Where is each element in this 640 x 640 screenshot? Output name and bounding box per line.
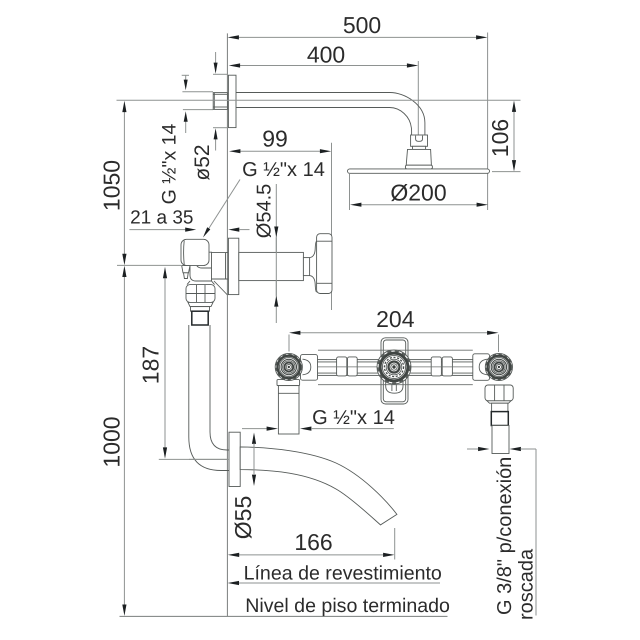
wall finish vertical line <box>226 33 228 616</box>
manifold coupling right <box>431 357 452 376</box>
shower head spacer <box>413 146 426 149</box>
check valve body <box>190 252 212 281</box>
106 bottom extension <box>492 171 521 173</box>
shower head body <box>406 149 431 165</box>
transfer valve cross handle bar <box>317 234 332 294</box>
valve centerline extension (1050/1000 junction) <box>117 264 181 266</box>
floor line (nivel de piso) <box>120 615 448 617</box>
left valve elbow body <box>301 355 318 381</box>
label Linea de revestimiento <box>228 562 442 585</box>
middle valve knob <box>377 350 411 384</box>
dimension 400 <box>229 41 419 67</box>
O54.5 dimension line over cylinder <box>275 237 277 295</box>
label G 1/2 x 14 of valve group <box>242 407 395 431</box>
label G 1/2 x 14 with leader to check valve <box>203 159 325 238</box>
check valve thread block <box>192 311 208 325</box>
dimension 1000 <box>99 266 127 616</box>
right valve thread block <box>491 412 508 426</box>
svg-text:ø52: ø52 <box>191 144 214 180</box>
dimension o52 of flange: down arrow <box>191 52 228 181</box>
check valve collar <box>188 302 213 306</box>
svg-text:106: 106 <box>487 119 513 157</box>
right valve elbow body <box>473 354 490 381</box>
manifold pipe <box>317 360 473 376</box>
O200 left extension <box>349 174 351 210</box>
check valve stub <box>191 307 210 312</box>
dimension O55 <box>230 433 256 540</box>
svg-text:187: 187 <box>138 346 164 384</box>
svg-text:1000: 1000 <box>99 416 125 467</box>
svg-text:Nivel de piso terminado: Nivel de piso terminado <box>245 595 450 617</box>
check valve handle <box>181 239 209 265</box>
166 right extension <box>394 528 396 560</box>
dimension 204 <box>289 306 499 335</box>
dimension 106 <box>487 101 516 172</box>
svg-text:G ½"x 14: G ½"x 14 <box>159 124 181 205</box>
transfer valve cross handle neck <box>310 241 317 292</box>
svg-text:Línea de revestimiento: Línea de revestimiento <box>244 562 442 584</box>
check valve bonnet <box>182 266 190 273</box>
shower arm centerline extension (1050 top to 106 dim) <box>117 99 521 101</box>
spout wall flange <box>229 432 240 486</box>
svg-text:21 a 35: 21 a 35 <box>130 207 193 228</box>
extension line right of 500 / O200 <box>487 33 489 211</box>
O55 dimension line over spout <box>253 444 255 476</box>
extension line right of 99 (handle edge) <box>331 143 333 310</box>
manifold outer tube lines <box>318 350 473 385</box>
svg-text:400: 400 <box>307 41 345 67</box>
transfer valve escutcheon (O54.5) <box>228 238 238 294</box>
dimension 187 <box>138 267 168 459</box>
spout centerline extension (187 bottom) <box>159 458 229 460</box>
check valve union nut <box>186 285 215 303</box>
dimension O200 <box>350 179 488 207</box>
supply pipe elbow to spout <box>189 325 229 471</box>
manifold coupling left <box>337 357 358 376</box>
spout centerline over elbow <box>189 458 228 460</box>
svg-text:G ½"x 14: G ½"x 14 <box>242 159 325 181</box>
shower arm wall flange <box>228 75 236 127</box>
svg-text:roscada: roscada <box>516 548 538 620</box>
shower head rim <box>405 165 432 169</box>
svg-text:1050: 1050 <box>98 160 124 211</box>
dimension 500 <box>228 12 488 40</box>
middle valve bracket <box>381 338 408 404</box>
svg-text:204: 204 <box>376 306 415 332</box>
right valve nut taper <box>487 401 511 403</box>
extension line of 400 through arm bend <box>417 61 419 135</box>
shower arm pipe with bend <box>236 93 425 136</box>
dimension G 1/2 x 14 on arm nipple <box>159 75 214 204</box>
check valve body-to-nut chamfers <box>187 281 190 285</box>
middle valve U-piece <box>386 380 403 393</box>
right valve pipe lower <box>492 426 509 454</box>
svg-text:500: 500 <box>343 12 381 38</box>
svg-text:99: 99 <box>262 126 288 152</box>
svg-text:Ø54.5: Ø54.5 <box>254 184 276 238</box>
left valve knob <box>275 353 302 380</box>
check valve connector to wall <box>212 253 229 279</box>
svg-text:G ½"x 14: G ½"x 14 <box>312 407 395 429</box>
svg-text:G 3/8" p/conexión: G 3/8" p/conexión <box>494 457 516 615</box>
transfer valve cylinder <box>239 252 304 280</box>
shower arm nipple (threaded) <box>213 93 227 110</box>
check valve bonnet tip <box>184 273 189 279</box>
tub spout <box>240 447 397 525</box>
svg-text:Ø55: Ø55 <box>230 496 256 539</box>
dimension G 3/8 p/conexion roscada <box>467 447 538 620</box>
right valve pipe upper <box>492 403 508 411</box>
204 right extension <box>498 335 500 353</box>
dimension 166 <box>228 529 395 557</box>
dimension 21 a 35 <box>129 207 249 231</box>
left valve drop tube <box>278 386 299 434</box>
check valve brace line <box>214 281 228 295</box>
transfer valve stem <box>303 258 309 276</box>
right valve hex nut <box>485 385 513 401</box>
dimension 99 <box>229 126 331 154</box>
shower head disc <box>348 169 490 173</box>
svg-text:Ø200: Ø200 <box>390 179 446 205</box>
shower head connector nut <box>411 135 428 146</box>
dimension 1050 <box>98 101 126 266</box>
svg-text:166: 166 <box>294 529 332 555</box>
right valve knob <box>485 353 512 380</box>
dimension O54.5 <box>254 184 279 323</box>
204 left extension <box>288 335 290 352</box>
left valve collar <box>277 380 300 386</box>
